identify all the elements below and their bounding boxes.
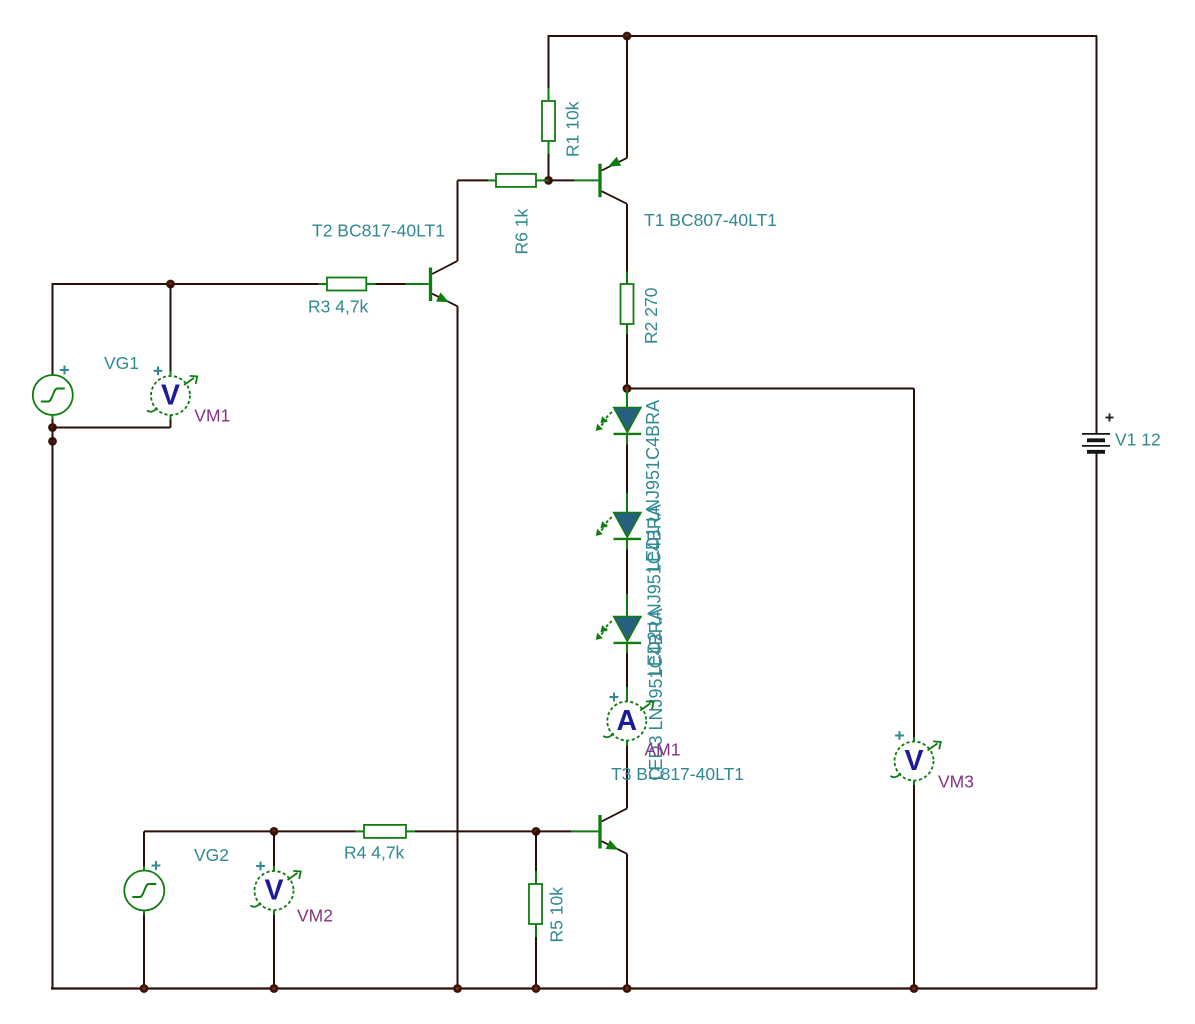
wire VG1 top row [52,283,319,285]
svg-text:R3 4,7k: R3 4,7k [308,297,369,317]
battery V1 [1082,434,1110,452]
svg-text:T3 BC817-40LT1: T3 BC817-40LT1 [611,764,744,784]
wire T2 base pin (green) [405,283,429,285]
wire AM1 top pin (green) [626,687,628,702]
transistor T2 emitter diagonal [432,294,457,307]
wire T3 base pin (green) [571,830,598,832]
transistor T2 emitter arrow (NPN) [436,293,449,303]
LED D3 LED3 [596,617,641,643]
svg-text:R1 10k: R1 10k [563,101,583,157]
wire T3 emitter to ground rail [626,854,628,989]
transistor T3 emitter diagonal [602,841,627,854]
battery V1 plus mark [1106,414,1114,422]
svg-text:T1 BC807-40LT1: T1 BC807-40LT1 [644,210,777,230]
node junction R5 top / T3 base [532,827,541,836]
wire R4 to T3 base node [415,830,536,832]
transistor T1 collector diagonal [602,191,627,204]
wire left rail to ground [52,428,54,990]
voltmeter VM1 [147,376,197,415]
resistor R5 [529,884,542,924]
svg-text:VM3: VM3 [938,772,974,792]
wire VG1 bottom pin (green) [52,415,54,420]
wire VM2 bottom pin (green) [273,911,275,916]
svg-text:V: V [264,875,283,907]
ammeter AM1 plus mark [610,693,619,702]
wire VM1 top pin (green) [170,371,172,376]
wire LED1 anode pin (green) [626,390,628,408]
wire VM1 return row [53,427,171,429]
svg-text:T2 BC817-40LT1: T2 BC817-40LT1 [312,221,445,241]
transistor T2 collector diagonal [432,261,457,274]
svg-text:R4 4,7k: R4 4,7k [344,842,405,862]
wire LED3 anode pin (green) [626,594,628,617]
transistor T1 base bar [598,164,601,198]
svg-text:V1 12: V1 12 [1115,430,1161,450]
transistor T1 emitter diagonal [602,158,627,171]
wire LED1 to LED2 [626,445,628,494]
wire VM1 top pin [170,284,172,371]
voltmeter VM3 [891,741,941,780]
wire T1 emitter riser to top rail [626,36,628,158]
source VG2 [124,871,164,911]
wire LED2 anode pin (green) [626,493,628,513]
source VG1 [33,375,73,415]
wire VM3 to ground rail [913,785,915,989]
resistor R6 [496,174,536,187]
wire R1 bottom to node [548,154,550,180]
wire VG1 top pin [52,284,54,375]
node junction VM2/ground rail [270,984,279,993]
svg-text:VM2: VM2 [297,906,333,926]
wire LED1 cathode pin (green) [626,434,628,445]
svg-text:R5 10k: R5 10k [547,887,567,943]
wire LED2 cathode pin (green) [626,539,628,550]
resistor R2 [621,284,634,324]
wire VM2 top pin (green) [273,866,275,871]
node junction VG1/VM1 return [48,423,57,432]
voltmeter VM1 plus mark [154,366,163,375]
wire VG2 top pin (green) [143,866,145,871]
wire right rail upper (to V1 +) [1096,36,1098,434]
wire LED node to VM3 branch [627,388,914,390]
wire AM1 to T3 collector [626,746,628,808]
wire VG2 top row [144,830,356,832]
wire R4 right pin (green) [406,830,415,832]
wire R2 bottom to LED node [626,334,628,389]
node junction left rail [48,437,57,446]
wire R3 to T2 base [375,283,405,285]
wire R5 to ground rail [535,937,537,989]
node junction T2 emitter/ground rail [453,984,462,993]
wire R3 right pin (green) [366,283,375,285]
node junction VM1 top [166,280,175,289]
wire R6 left pin (green) [488,179,496,181]
wire right rail lower (V1 - to ground rail) [1096,454,1098,989]
transistor T3 emitter arrow (NPN) [606,840,619,850]
wire LED3 cathode pin (green) [626,643,628,653]
wire R5 top [535,831,537,871]
wire R3 left pin (green) [319,283,327,285]
wire LED3 to AM1 [626,653,628,687]
node junction VG2/ground rail [140,984,149,993]
resistor R1 [542,101,555,141]
node junction R5/ground rail [532,984,541,993]
wire R2 bottom pin (green) [626,324,628,334]
svg-text:R2 270: R2 270 [641,287,661,344]
transistor T3 collector diagonal [602,808,627,821]
resistor R3 [327,278,366,291]
wire R1 top pin (green) [548,88,550,101]
source VG1 plus mark [60,366,69,375]
wire T1 base pin (green) [574,179,598,181]
svg-text:R6 1k: R6 1k [512,209,532,255]
transistor T3 base bar [598,815,601,849]
wire T1 base lead [549,179,575,181]
wire R2 top pin (green) [626,272,628,285]
wire R6 left (from T2 collector riser) [458,179,489,181]
svg-text:V: V [161,380,180,412]
svg-text:V: V [904,745,923,777]
wire R1 bottom pin (green) [548,141,550,154]
resistor R4 [364,825,406,838]
svg-text:VG2: VG2 [194,845,229,865]
wire R5 bottom pin (green) [535,924,537,937]
svg-text:VG1: VG1 [104,353,139,373]
ammeter AM1 [603,701,653,740]
wire VM1 bottom pin (green) [170,415,172,420]
wire top rail (+12V) [549,35,1098,37]
wire VM3 bottom pin (green) [913,781,915,785]
wire VM2 top pin [273,831,275,866]
wire LED2 to LED3 [626,550,628,595]
transistor T1 emitter arrow (PNP) [608,157,621,167]
wire VM2 to ground rail [273,915,275,989]
source VG2 plus mark [152,861,161,870]
wire AM1 bottom pin (green) [626,740,628,746]
LED D1 LED1 [596,408,641,434]
wire T2 emitter to ground rail [457,306,459,988]
LED D2 LED2 [596,513,641,539]
wire VM3 riser [913,389,915,738]
node junction R2/LED1/VM3 branch [623,384,632,393]
voltmeter VM2 [251,871,301,910]
wire VG2 bottom pin (green) [143,911,145,916]
wire bottom ground rail [51,987,1097,989]
wire R5 top pin (green) [535,871,537,884]
wire R6 right pin (green) [536,179,549,181]
wire R1 top (from top rail) [548,35,550,88]
wire R4 left pin (green) [356,830,364,832]
wire VG2 to ground rail [143,915,145,989]
wire VM1 bottom [170,420,172,428]
node junction VM2 top [270,827,279,836]
voltmeter VM3 plus mark [895,731,904,740]
svg-text:AM1: AM1 [645,740,681,760]
wire T3 base row [536,830,571,832]
transistor T2 base bar [429,268,432,302]
node junction VM3/ground rail [910,984,919,993]
wire T1 collector to R2 [626,204,628,272]
wire VM3 top pin (green) [913,737,915,741]
node junction R1/R6/T1 base [544,176,553,185]
wire VG1 bottom to node [52,420,54,428]
wire T2 collector riser to R6 [457,180,459,261]
svg-text:A: A [617,705,638,737]
svg-text:VM1: VM1 [194,406,230,426]
voltmeter VM2 plus mark [256,862,265,871]
node junction top rail / T1 emitter [623,32,632,41]
wire VG2 top pin [143,831,145,866]
node junction T3 emitter/ground rail [623,984,632,993]
